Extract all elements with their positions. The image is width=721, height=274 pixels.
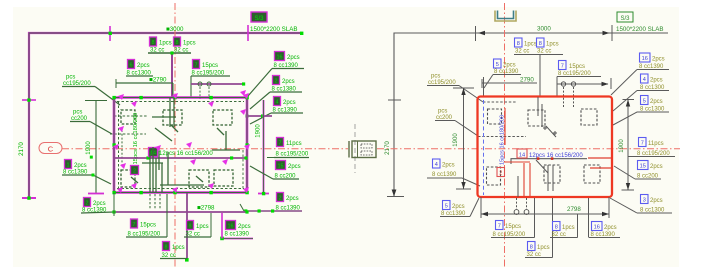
svg-text:15pcs: 15pcs — [569, 64, 585, 70]
svg-text:2pcs: 2pcs — [452, 204, 465, 210]
column TM right — [528, 110, 545, 126]
label 5 2pcs 8cc1390 right-bottomleft — [440, 198, 479, 217]
label 8 1pcs 32cc left-a — [150, 37, 172, 54]
svg-text:14: 14 — [519, 153, 525, 159]
svg-text:15pcs: 15pcs — [140, 223, 156, 229]
svg-text:1500*2200 SLAB: 1500*2200 SLAB — [250, 26, 297, 33]
label 7 11pcs 8cc195/200 right-right3 — [628, 138, 675, 158]
column TR left — [213, 110, 232, 125]
svg-text:1900: 1900 — [86, 141, 92, 155]
svg-text:1pcs: 1pcs — [196, 224, 209, 230]
svg-text:11pcs: 11pcs — [648, 141, 664, 147]
svg-text:7: 7 — [498, 224, 501, 230]
svg-text:16: 16 — [277, 55, 283, 61]
svg-text:15pcs: 15pcs — [505, 224, 521, 230]
svg-text:4: 4 — [435, 162, 438, 168]
column TL right — [488, 109, 502, 124]
svg-text:pcs: pcs — [431, 74, 440, 80]
bottom stems right — [535, 198, 589, 258]
svg-text:7: 7 — [561, 64, 564, 70]
svg-text:1pcs: 1pcs — [546, 42, 559, 48]
label 4 2pcs 8cc1390 right-left — [427, 159, 480, 186]
svg-text:8 cc1390: 8 cc1390 — [432, 172, 457, 178]
svg-text:8: 8 — [189, 224, 192, 230]
svg-text:2: 2 — [275, 79, 278, 85]
label 7 15pcs 8cc195/200 right-top — [557, 61, 601, 98]
label 4 2pcs 8cc1300 right-right1 — [613, 74, 669, 111]
centerline vertical right — [504, 3, 506, 268]
svg-text:1900: 1900 — [256, 124, 262, 138]
label 2 2pcs 8cc1390 left-right5 — [240, 193, 302, 213]
border frame right drawing — [387, 33, 668, 197]
svg-text:16: 16 — [594, 225, 600, 231]
svg-text:15: 15 — [278, 164, 284, 170]
svg-text:7: 7 — [133, 222, 136, 228]
magenta selection arrows left — [113, 90, 250, 193]
S/3 slab tag left — [250, 12, 297, 33]
datum C bubble — [39, 143, 62, 154]
label 8 1pcs 32cc right-bottom2 — [525, 242, 553, 259]
svg-text:32 cc: 32 cc — [537, 49, 551, 55]
centerline horizontal right — [377, 148, 680, 150]
svg-text:2pcs: 2pcs — [287, 55, 300, 61]
svg-text:8 cc1390: 8 cc1390 — [225, 232, 250, 238]
grips on left slab — [112, 96, 248, 194]
label 15 2pcs 8cc200 left-right4 — [250, 161, 301, 180]
dashed edge bars inside left slab — [118, 101, 120, 190]
svg-text:2pcs: 2pcs — [442, 163, 455, 169]
svg-text:2: 2 — [133, 169, 136, 175]
svg-text:2pcs: 2pcs — [650, 78, 663, 84]
section view symbol — [349, 124, 376, 173]
svg-text:7: 7 — [195, 63, 198, 69]
label 2 2pcs 8cc1390 left-bottomleft — [81, 198, 114, 214]
label 16 2pcs 8cc1390 left-topright — [248, 52, 304, 97]
svg-text:2pcs: 2pcs — [137, 63, 150, 69]
svg-text:2pcs: 2pcs — [283, 100, 296, 106]
svg-text:7: 7 — [641, 141, 644, 147]
pcs cc195/200 note right — [427, 74, 516, 103]
svg-text:2pcs: 2pcs — [650, 164, 663, 170]
svg-text:pcs: pcs — [438, 109, 447, 115]
label 16 2pcs 8cc1390 left-bottom — [220, 213, 253, 240]
label 1 2pcs 8cc1390 left-left — [62, 160, 111, 185]
label 7 11pcs 8cc195/200 left-right3 — [267, 138, 309, 158]
svg-text:2798: 2798 — [567, 206, 581, 213]
label 5 2pcs 8cc1390 right-right5 — [610, 195, 672, 214]
leader under 32cc labels left — [148, 51, 191, 98]
svg-text:2pcs: 2pcs — [652, 57, 665, 63]
column TR right — [581, 109, 597, 125]
label 8 1pcs 32cc right-a — [515, 38, 537, 55]
svg-text:1pcs: 1pcs — [159, 41, 172, 47]
svg-text:3: 3 — [643, 198, 646, 204]
svg-text:4: 4 — [643, 77, 646, 83]
label 8 1pcs 32cc left-b — [174, 37, 196, 54]
svg-text:2: 2 — [86, 201, 89, 207]
svg-text:1pcs: 1pcs — [562, 225, 575, 231]
svg-text:12pcs 16 cc156/200: 12pcs 16 cc156/200 — [529, 153, 583, 159]
svg-text:C: C — [48, 145, 54, 154]
svg-text:7: 7 — [279, 141, 282, 147]
svg-text:2pcs: 2pcs — [503, 63, 516, 69]
label 5 2pcs 8cc1300 right-right2 — [613, 96, 669, 126]
svg-text:8: 8 — [165, 245, 168, 251]
svg-text:15: 15 — [640, 164, 646, 170]
svg-text:2pcs: 2pcs — [282, 79, 295, 85]
column BR left — [214, 170, 233, 186]
svg-text:1: 1 — [67, 163, 70, 169]
svg-text:16: 16 — [642, 56, 648, 62]
column BM right — [544, 165, 560, 183]
top bar line with hooks left — [191, 82, 245, 99]
column BR right — [584, 165, 600, 183]
svg-text:1pcs: 1pcs — [537, 245, 550, 251]
svg-text:5: 5 — [445, 204, 448, 210]
pcs cc200 note right — [435, 109, 526, 137]
label 5 2pcs 8cc1390 right-top — [484, 59, 522, 96]
label 7 15pcs 8cc195/200 left-top — [191, 60, 230, 99]
column BL left — [121, 170, 135, 187]
svg-text:2: 2 — [499, 171, 502, 177]
inner 1900 dimension right — [453, 88, 474, 189]
svg-text:S/3: S/3 — [620, 16, 630, 22]
label 4 2pcs 8cc1390 left-right2 — [250, 97, 303, 125]
svg-text:8: 8 — [530, 245, 533, 251]
label 8 1pcs 32cc left-bottom — [184, 213, 211, 238]
U bracket symbol top right drawing — [495, 11, 516, 22]
svg-text:1pcs: 1pcs — [183, 41, 196, 47]
svg-text:■2798: ■2798 — [197, 205, 215, 212]
bar label 14 12pcs right — [517, 149, 583, 159]
outer 1900 dimension right — [619, 100, 634, 191]
svg-text:2170: 2170 — [384, 141, 391, 155]
bottom stem left — [185, 193, 189, 262]
label 8 1pcs 32cc right-bottom — [550, 222, 578, 239]
svg-text:2pcs: 2pcs — [650, 198, 663, 204]
svg-text:2pcs: 2pcs — [74, 163, 87, 169]
svg-text:8: 8 — [555, 225, 558, 231]
bar label 14 12pcs left — [149, 148, 214, 158]
outer 1900 dimension left — [256, 100, 270, 195]
column BL right — [487, 167, 501, 185]
label 7 15pcs 8cc195/200 right-bottom — [491, 221, 535, 239]
svg-text:2pcs: 2pcs — [93, 201, 106, 207]
label 16 2pcs 8cc1390 right-topright — [611, 53, 669, 95]
svg-text:12pcs 16 cc156/200: 12pcs 16 cc156/200 — [159, 151, 213, 157]
connector line right of left slab — [245, 114, 272, 117]
svg-text:16: 16 — [228, 224, 234, 230]
svg-text:8: 8 — [517, 41, 520, 47]
svg-text:8: 8 — [152, 40, 155, 46]
dimension 3000 right — [476, 25, 613, 41]
svg-text:3000: 3000 — [537, 26, 551, 33]
svg-text:2: 2 — [279, 196, 282, 202]
inner 1900 dimension left — [85, 101, 107, 194]
svg-text:8: 8 — [539, 41, 542, 47]
svg-text:1900: 1900 — [619, 139, 625, 153]
column TL left — [121, 110, 135, 124]
svg-text:4: 4 — [276, 100, 279, 106]
pcs cc200 note left — [70, 110, 146, 135]
dimension 2790 right — [482, 77, 537, 89]
label 8 1pcs 32cc right-b — [537, 38, 559, 55]
border frame left drawing — [22, 25, 303, 200]
column TM left — [163, 110, 182, 125]
svg-text:11pcs: 11pcs — [286, 141, 302, 147]
svg-text:15pcs 16 cc180/200: 15pcs 16 cc180/200 — [133, 113, 139, 165]
interior bars left slab — [131, 98, 240, 192]
svg-text:2pcs: 2pcs — [238, 224, 251, 230]
svg-text:2pcs: 2pcs — [650, 99, 663, 105]
leader under 32cc labels right — [514, 55, 563, 98]
label 7 15pcs 8cc195/200 left-bottom — [126, 194, 167, 238]
slab outline right — [478, 97, 613, 198]
svg-text:2pcs: 2pcs — [288, 164, 301, 170]
svg-text:1pcs: 1pcs — [524, 42, 537, 48]
svg-text:2790: 2790 — [520, 77, 534, 84]
label 16 2pcs 8cc1390 right-bottom — [589, 222, 620, 239]
svg-text:5: 5 — [643, 99, 646, 105]
svg-text:6: 6 — [130, 63, 133, 69]
bar 12pcs main rebar line right — [511, 157, 611, 173]
svg-text:8: 8 — [176, 40, 179, 46]
centerline horizontal left — [62, 148, 348, 150]
svg-text:2170: 2170 — [18, 142, 25, 156]
label 8 1pcs 32cc left-bottom2 — [160, 242, 187, 260]
bottom dashed bar drops left — [150, 194, 160, 209]
label 2 2pcs 8cc1380 left-right1 — [250, 76, 302, 110]
svg-text:8 cc195/200: 8 cc195/200 — [276, 152, 309, 158]
rotated bar label 2 15pcs left — [131, 113, 140, 175]
svg-text:pcs: pcs — [66, 75, 75, 81]
bar hooks under right slab — [514, 198, 529, 214]
interior bars right slab — [518, 97, 557, 197]
svg-text:1500*2200 SLAB: 1500*2200 SLAB — [616, 26, 663, 33]
label 6 2pcs 8cc1300 left — [126, 60, 153, 77]
svg-text:5: 5 — [496, 62, 499, 68]
pcs cc195/200 note left — [62, 75, 147, 117]
label 15 2pcs 8cc200 right-right4 — [614, 161, 663, 180]
svg-text:S/3: S/3 — [254, 16, 264, 22]
dimension 2798 right — [481, 197, 609, 218]
svg-text:2pcs: 2pcs — [604, 225, 617, 231]
top bar line with hooks right — [557, 78, 611, 107]
svg-text:32 cc: 32 cc — [515, 49, 529, 55]
bar 12pcs main rebar line left — [115, 156, 248, 165]
svg-text:15pcs: 15pcs — [202, 63, 218, 69]
svg-text:pcs: pcs — [73, 110, 82, 116]
slab outline left (selected) — [114, 98, 247, 193]
S/3 slab tag right — [616, 12, 663, 33]
svg-text:2pcs: 2pcs — [286, 196, 299, 202]
svg-text:1pcs: 1pcs — [172, 245, 185, 251]
centerline vertical left — [174, 3, 176, 268]
svg-text:■3000: ■3000 — [166, 26, 184, 33]
red rebar marks right slab — [504, 108, 530, 197]
svg-text:1900: 1900 — [453, 133, 459, 147]
dimension 2798 left — [112, 193, 248, 216]
dimension 2790 left — [116, 77, 173, 99]
rotated bar label 2 15pcs right — [497, 115, 506, 177]
column BM left — [189, 170, 209, 187]
blue mesh dashed line right slab — [483, 100, 485, 195]
